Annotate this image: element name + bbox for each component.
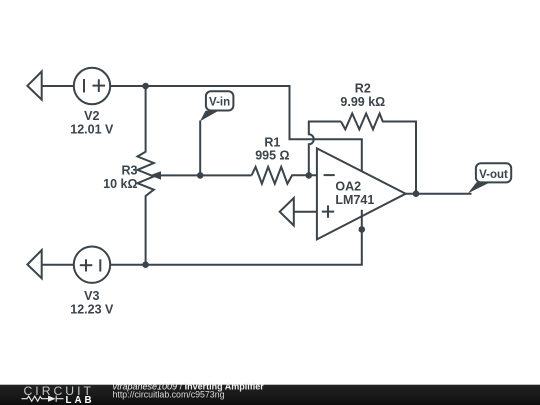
svg-text:R3: R3 xyxy=(122,164,138,178)
svg-text:10 kΩ: 10 kΩ xyxy=(103,177,137,191)
svg-text:V-out: V-out xyxy=(479,169,508,181)
svg-text:V-in: V-in xyxy=(209,97,230,109)
svg-text:LAB: LAB xyxy=(66,395,95,405)
svg-text:9.99 kΩ: 9.99 kΩ xyxy=(340,95,385,109)
svg-text:R2: R2 xyxy=(355,82,371,96)
svg-text:12.01 V: 12.01 V xyxy=(70,122,114,136)
svg-text:http://circuitlab.com/c9573ng: http://circuitlab.com/c9573ng xyxy=(113,390,225,400)
svg-text:995 Ω: 995 Ω xyxy=(255,149,289,163)
svg-text:OA2: OA2 xyxy=(335,180,361,194)
svg-text:V3: V3 xyxy=(84,289,99,303)
svg-text:R1: R1 xyxy=(264,136,280,150)
svg-text:LM741: LM741 xyxy=(335,193,374,207)
svg-text:12.23 V: 12.23 V xyxy=(70,302,114,316)
svg-text:V2: V2 xyxy=(84,109,99,123)
